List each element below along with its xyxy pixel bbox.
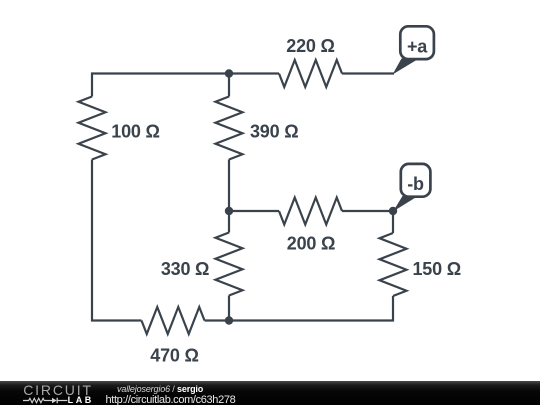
footer url line — [106, 395, 236, 406]
resistor R7 470 Ohm body — [142, 307, 205, 334]
wire bottom right segment with corner up to 150 body — [205, 296, 394, 321]
wire mid vertical top lead — [228, 74, 230, 97]
terminal +a tail — [393, 59, 420, 75]
resistor R5 200 Ohm body — [279, 198, 342, 225]
svg-text:150 Ω: 150 Ω — [413, 259, 461, 279]
wire left vertical lower with bottom-left corner — [92, 160, 142, 321]
svg-text:-b: -b — [407, 174, 424, 194]
svg-text:+a: +a — [407, 37, 428, 57]
svg-text:100 Ω: 100 Ω — [111, 122, 159, 142]
footer bar — [0, 381, 540, 405]
circuitlab logo symbol row: resistor + diode — [23, 397, 68, 405]
svg-text:470 Ω: 470 Ω — [150, 346, 198, 366]
terminal -b box — [401, 164, 431, 197]
resistor R2 100 Ohm body — [79, 97, 106, 160]
footer credit line — [117, 385, 203, 394]
terminal +a box — [400, 26, 434, 59]
wire from 220 body to +a tail — [342, 72, 394, 74]
svg-text:200 Ω: 200 Ω — [287, 234, 335, 254]
wire mid vertical between 390 and 330 — [228, 160, 230, 233]
svg-text:390 Ω: 390 Ω — [250, 122, 298, 142]
node junction middle right (terminal -b net) — [389, 207, 397, 215]
resistor R1 220 Ohm body — [279, 60, 342, 87]
svg-text:330 Ω: 330 Ω — [161, 259, 209, 279]
circuitlab logo wordmark CIRCUIT — [23, 383, 93, 397]
circuitlab logo wordmark LAB — [68, 396, 94, 405]
resistor R6 150 Ohm body — [380, 233, 407, 296]
resistor R3 390 Ohm body — [216, 97, 243, 160]
wire mid vertical bottom lead — [228, 296, 230, 321]
terminal -b tail — [393, 196, 418, 212]
node junction top (R2/R3/R1 net) — [225, 69, 233, 77]
svg-text:220 Ω: 220 Ω — [286, 36, 334, 56]
wire middle row left lead — [229, 210, 279, 212]
node junction middle left (R3/R4/R5 net) — [225, 207, 233, 215]
wire middle row right lead — [342, 210, 393, 212]
wire right vertical top lead — [392, 211, 394, 233]
resistor R4 330 Ohm body — [216, 233, 243, 296]
wire top from left corner to 220 body — [92, 74, 279, 97]
node junction bottom (R4/R7 net) — [225, 316, 233, 324]
